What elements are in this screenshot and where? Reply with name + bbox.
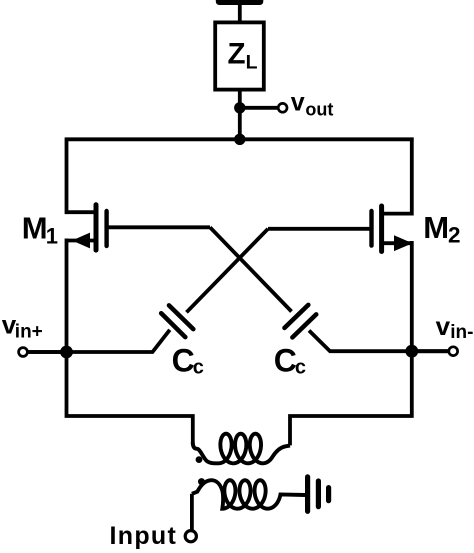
svg-text:C: C (172, 342, 195, 378)
svg-text:v: v (436, 311, 451, 341)
svg-text:in+: in+ (15, 322, 43, 343)
svg-text:Z: Z (228, 38, 246, 71)
svg-text:M: M (22, 211, 48, 246)
svg-text:1: 1 (46, 223, 58, 248)
svg-text:v: v (291, 89, 305, 117)
svg-text:c: c (193, 357, 204, 379)
svg-text:c: c (295, 356, 306, 378)
svg-text:C: C (274, 342, 297, 378)
svg-text:M: M (423, 210, 449, 245)
svg-text:Input: Input (110, 522, 178, 550)
svg-text:in-: in- (450, 322, 473, 343)
svg-text:L: L (246, 52, 258, 74)
svg-text:2: 2 (448, 222, 461, 247)
svg-text:out: out (305, 99, 333, 119)
